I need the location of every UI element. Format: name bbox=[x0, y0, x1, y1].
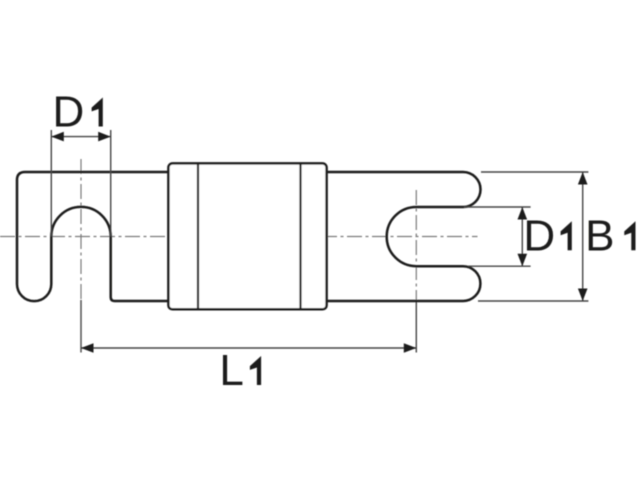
right terminal blade outline bbox=[327, 172, 481, 301]
L1 right arrowhead bbox=[404, 343, 417, 353]
horizontal centerline (left segment) bbox=[0, 236, 176, 238]
D1 right top arrowhead bbox=[518, 207, 528, 220]
vertical centerline of right slot bbox=[415, 190, 417, 301]
D1 right top extension line bbox=[464, 206, 531, 208]
D1 right dimension line bbox=[521, 207, 523, 266]
B1 top arrowhead bbox=[578, 172, 588, 185]
D1 top left arrowhead bbox=[51, 132, 64, 142]
D1 left extension line (slot left edge) bbox=[50, 130, 52, 237]
L1 left arrowhead bbox=[81, 343, 94, 353]
fuse body left end-cap line bbox=[197, 163, 199, 309]
svg-text:B: B bbox=[585, 211, 614, 260]
D1 top dimension line bbox=[51, 136, 110, 138]
svg-text:L: L bbox=[219, 346, 243, 395]
B1 bottom extension line bbox=[478, 300, 588, 302]
B1 dimension line bbox=[582, 172, 584, 301]
extension line below left slot center (L1) bbox=[80, 300, 82, 353]
D1 right bottom arrowhead bbox=[518, 254, 528, 267]
L1 dimension line bbox=[81, 347, 416, 349]
horizontal centerline (right segment) bbox=[322, 236, 478, 238]
fuse body outline bbox=[168, 163, 326, 309]
fuse body right end-cap line bbox=[299, 163, 301, 309]
D1 left extension line (slot right edge) bbox=[110, 130, 112, 237]
extension line below right slot center (L1) bbox=[415, 301, 417, 353]
left terminal blade outline bbox=[17, 172, 168, 301]
B1 bottom arrowhead bbox=[578, 289, 588, 302]
vertical centerline of left slot bbox=[80, 159, 82, 300]
svg-text:D: D bbox=[53, 88, 85, 137]
B1 top extension line bbox=[481, 171, 588, 173]
D1 right bottom extension line bbox=[468, 265, 531, 267]
D1 top right arrowhead bbox=[98, 132, 111, 142]
svg-text:D: D bbox=[523, 211, 555, 260]
